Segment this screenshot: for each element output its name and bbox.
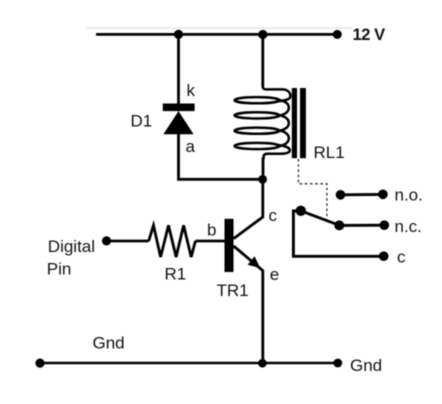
node: switch common pole dot [296,206,306,216]
node: junction diode/coil/collector [258,175,267,184]
svg-text:e: e [270,265,279,284]
wire: coil bottom to collector junction node [262,158,265,180]
svg-text:k: k [187,81,196,100]
wire: switch armature (pole to n.c.) [301,211,340,226]
wire: n.o. contact line [341,193,383,196]
node: junction of relay coil branch on 12V rail [258,30,267,39]
node: emitter junction on ground rail [258,359,267,368]
svg-text:TR1: TR1 [217,281,249,300]
node: n.o. terminal dot [378,190,388,200]
node: n.o. left contact dot [336,190,346,200]
svg-text:R1: R1 [165,265,187,284]
svg-text:Gnd: Gnd [350,356,382,375]
transistor TR1 emitter arrow head [248,256,261,268]
wire: diode anode down and across to collector node [179,133,263,179]
svg-text:b: b [207,220,216,239]
svg-text:c: c [269,206,278,225]
wire: 12V rail down to diode cathode [177,34,180,105]
svg-text:12 V: 12 V [353,26,386,44]
svg-text:a: a [186,137,196,156]
svg-text:c: c [397,248,406,267]
svg-text:n.o.: n.o. [395,185,423,204]
wire: 12V rail down to relay coil top [261,34,264,87]
wire: dashed mechanical link from relay core to switch [298,159,327,219]
svg-text:Gnd: Gnd [93,334,125,353]
svg-text:Pin: Pin [47,260,72,279]
wire: faint artifact line above 12V rail [86,27,352,29]
node: n.c. armature contact dot [334,220,344,230]
wire: digital pin to resistor [107,240,149,243]
node: 12V terminal dot [333,30,342,39]
wire: resistor to base [195,240,224,243]
node: junction of diode branch on 12V rail [174,30,183,39]
wire: +12V top rail [96,33,338,36]
svg-text:D1: D1 [131,112,153,131]
resistor R1 [149,225,196,257]
diode D1 [163,104,195,135]
transistor TR1 base bar [225,219,234,272]
svg-text:RL1: RL1 [314,143,345,162]
inductor RL1 coil (4 loops) [235,86,291,160]
node: c terminal dot [379,251,389,261]
ground: right Gnd terminal dot [333,359,342,368]
ground: left Gnd terminal dot [35,359,44,368]
relay core bars (RL1) [292,88,306,158]
wire: junction down to transistor collector [234,179,263,238]
wire: emitter slant with arrow, down to ground rail [234,246,263,363]
wire: n.c. contact line [339,224,384,227]
svg-text:n.c.: n.c. [395,217,422,236]
svg-text:Digital: Digital [48,237,95,256]
wire: common pole down to c contact [293,211,383,256]
node: n.c. terminal dot [380,220,390,230]
node: Digital Pin input terminal [102,236,111,245]
wire: ground rail [40,362,338,365]
